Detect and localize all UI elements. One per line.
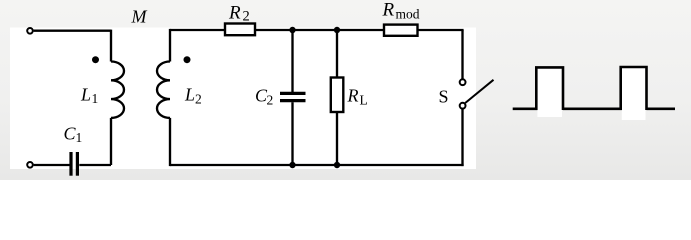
junction top-right (RL) (334, 27, 340, 33)
wire primary bottom right (79, 164, 111, 166)
svg-text:1: 1 (76, 130, 83, 145)
wire RL branch bottom (336, 112, 338, 165)
switch S lower contact (460, 103, 466, 109)
wire primary top (34, 30, 111, 32)
wire secondary top right (418, 29, 464, 31)
wire RL branch top (336, 30, 338, 78)
pulse 2 white fill (622, 68, 646, 120)
waveform pulse 2 (621, 67, 647, 110)
waveform pulse 1 (536, 67, 563, 110)
waveform baseline segment 3 (647, 108, 676, 111)
waveform baseline segment 2 (563, 108, 622, 111)
wire primary bottom left (34, 164, 70, 166)
resistor Rmod (384, 25, 418, 36)
wire switch vertical bottom (461, 109, 463, 166)
capacitor C1 (71, 152, 77, 176)
schematic white background (10, 28, 476, 170)
svg-text:S: S (439, 86, 449, 106)
inductor L2 (157, 62, 170, 118)
svg-text:1: 1 (92, 91, 99, 106)
terminal bottom-left (27, 162, 33, 168)
resistor R2 (225, 24, 255, 36)
wire secondary bottom (170, 164, 464, 166)
svg-text:L: L (184, 85, 195, 105)
wire L2 top stub (169, 29, 171, 62)
wire switch vertical top (461, 30, 463, 79)
switch S upper contact (460, 79, 466, 85)
svg-text:R: R (382, 0, 395, 21)
resistor RL (331, 78, 344, 113)
wire L1 bottom stub (110, 118, 112, 165)
wire L1 top stub (110, 30, 112, 62)
pulse 1 white fill (537, 69, 562, 118)
terminal top-left (27, 28, 33, 34)
svg-text:R: R (228, 2, 241, 23)
wire secondary top middle (255, 29, 384, 31)
wire C2 branch bottom (291, 102, 293, 165)
waveform baseline segment 1 (513, 108, 538, 111)
svg-text:mod: mod (396, 7, 420, 22)
capacitor C2 (280, 93, 306, 100)
svg-text:R: R (347, 86, 359, 106)
polarity dot L1 (92, 56, 99, 63)
wire L2 bottom stub (169, 118, 171, 166)
wire C2 branch top (291, 30, 293, 92)
svg-text:2: 2 (195, 92, 202, 107)
svg-text:2: 2 (243, 9, 250, 25)
inductor L1 (111, 62, 124, 118)
svg-text:M: M (131, 7, 148, 27)
switch S blade (465, 80, 493, 103)
junction bottom-right (RL) (334, 162, 340, 168)
svg-text:L: L (360, 92, 368, 107)
svg-text:L: L (80, 84, 91, 104)
junction top-left (C2) (289, 27, 295, 33)
polarity dot L2 (184, 56, 191, 63)
svg-text:2: 2 (267, 93, 274, 108)
wire secondary top left (170, 29, 225, 31)
junction bottom-left (C2) (289, 162, 295, 168)
